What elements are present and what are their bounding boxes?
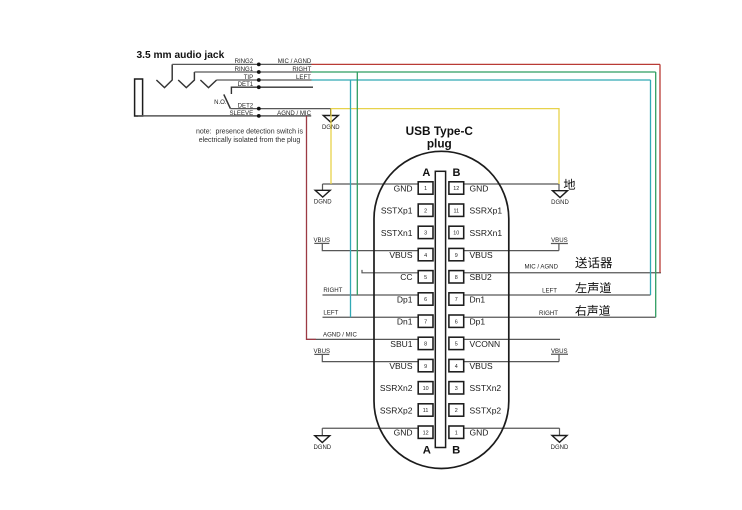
svg-text:RING1: RING1 <box>235 66 254 73</box>
svg-text:VCONN: VCONN <box>470 339 501 349</box>
svg-text:VBUS: VBUS <box>389 250 412 260</box>
svg-text:GND: GND <box>470 428 489 438</box>
svg-text:6: 6 <box>455 319 458 325</box>
svg-text:SSTXp1: SSTXp1 <box>381 206 413 216</box>
svg-text:SBU1: SBU1 <box>390 339 412 349</box>
svg-text:CC: CC <box>400 272 412 282</box>
svg-text:DGND: DGND <box>551 200 569 206</box>
svg-text:10: 10 <box>423 386 429 392</box>
svg-text:AGND / MIC: AGND / MIC <box>277 110 311 117</box>
svg-text:electrically isolated from the: electrically isolated from the plug <box>199 137 301 144</box>
svg-text:4: 4 <box>424 253 427 259</box>
svg-text:RIGHT: RIGHT <box>292 66 311 73</box>
svg-text:Dn1: Dn1 <box>397 317 413 327</box>
svg-text:7: 7 <box>455 297 458 303</box>
svg-text:GND: GND <box>394 428 413 438</box>
svg-text:plug: plug <box>427 137 452 151</box>
svg-text:B: B <box>452 444 460 456</box>
svg-text:VBUS: VBUS <box>551 237 568 244</box>
svg-text:LEFT: LEFT <box>323 309 338 316</box>
svg-text:12: 12 <box>453 186 459 192</box>
svg-text:6: 6 <box>424 297 427 303</box>
svg-text:RIGHT: RIGHT <box>323 287 342 294</box>
svg-text:A: A <box>422 167 430 179</box>
svg-text:VBUS: VBUS <box>470 250 493 260</box>
svg-text:3: 3 <box>455 386 458 392</box>
svg-text:SLEEVE: SLEEVE <box>229 110 253 117</box>
svg-text:1: 1 <box>455 430 458 436</box>
svg-text:VBUS: VBUS <box>313 348 330 355</box>
svg-text:9: 9 <box>455 253 458 259</box>
svg-text:GND: GND <box>470 183 489 193</box>
svg-text:VBUS: VBUS <box>551 348 568 355</box>
svg-text:2: 2 <box>424 208 427 214</box>
svg-text:DGND: DGND <box>551 445 569 451</box>
svg-text:VBUS: VBUS <box>470 361 493 371</box>
svg-text:SSTXp2: SSTXp2 <box>470 405 502 415</box>
svg-text:AGND / MIC: AGND / MIC <box>323 331 357 338</box>
svg-text:12: 12 <box>423 430 429 436</box>
svg-text:VBUS: VBUS <box>313 237 330 244</box>
svg-text:11: 11 <box>453 208 459 214</box>
svg-text:3.5 mm audio jack: 3.5 mm audio jack <box>137 50 225 61</box>
svg-text:SSRXp1: SSRXp1 <box>470 206 503 216</box>
svg-text:TIP: TIP <box>244 74 253 81</box>
svg-text:MIC / AGND: MIC / AGND <box>278 58 312 65</box>
svg-text:DET2: DET2 <box>238 103 254 110</box>
svg-text:GND: GND <box>394 183 413 193</box>
svg-text:4: 4 <box>455 364 458 370</box>
svg-text:SSTXn2: SSTXn2 <box>470 383 502 393</box>
svg-text:SBU2: SBU2 <box>470 272 492 282</box>
svg-text:RING2: RING2 <box>235 58 254 65</box>
svg-text:10: 10 <box>453 231 459 237</box>
svg-text:8: 8 <box>424 342 427 348</box>
svg-text:DGND: DGND <box>313 445 331 451</box>
svg-text:A: A <box>423 444 431 456</box>
svg-text:11: 11 <box>423 408 429 414</box>
svg-text:Dp1: Dp1 <box>470 317 486 327</box>
svg-text:RIGHT: RIGHT <box>539 310 558 317</box>
svg-text:VBUS: VBUS <box>389 361 412 371</box>
svg-text:DET1: DET1 <box>238 81 254 88</box>
svg-text:3: 3 <box>424 231 427 237</box>
svg-text:7: 7 <box>424 319 427 325</box>
svg-text:1: 1 <box>424 186 427 192</box>
svg-text:SSTXn1: SSTXn1 <box>381 228 413 238</box>
svg-text:MIC / AGND: MIC / AGND <box>524 264 558 271</box>
svg-text:9: 9 <box>424 364 427 370</box>
svg-text:5: 5 <box>424 275 427 281</box>
svg-text:N.O.: N.O. <box>214 99 227 106</box>
svg-text:LEFT: LEFT <box>296 74 311 81</box>
svg-text:2: 2 <box>455 408 458 414</box>
svg-text:8: 8 <box>455 275 458 281</box>
svg-text:Dp1: Dp1 <box>397 294 413 304</box>
svg-text:SSRXp2: SSRXp2 <box>380 405 413 415</box>
svg-text:SSRXn1: SSRXn1 <box>470 228 503 238</box>
svg-text:5: 5 <box>455 342 458 348</box>
svg-text:DGND: DGND <box>314 200 332 206</box>
svg-text:SSRXn2: SSRXn2 <box>380 383 413 393</box>
svg-text:LEFT: LEFT <box>542 287 557 294</box>
svg-text:note: presence detection swit: note: presence detection switch is <box>196 128 304 135</box>
svg-text:Dn1: Dn1 <box>470 294 486 304</box>
svg-text:B: B <box>453 167 461 179</box>
